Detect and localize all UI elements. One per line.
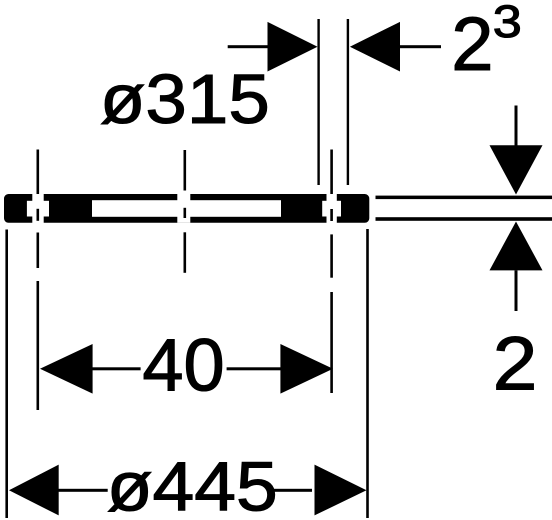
dia445 dimension label [107,448,278,520]
2mm gap dimension superscript 3 [493,0,522,47]
dia445 right extension line [366,229,369,518]
40mm dimension right arrow [280,344,333,394]
dia315 right extension line [347,19,349,185]
svg-text:40: 40 [142,324,224,407]
dia445 dimension right arrow [315,465,367,516]
right notch centerline [330,150,333,394]
left notch centerline [37,150,40,411]
svg-text:3: 3 [493,0,522,47]
2mm gap dimension leader left [228,45,269,48]
dia445 dimension leader left [58,489,108,492]
svg-text:2: 2 [493,321,538,406]
dia445 left extension line [5,230,8,519]
dia445 dimension left arrow [9,465,59,516]
svg-text:ø315: ø315 [100,61,270,138]
svg-text:ø445: ø445 [107,448,278,520]
dia445 dimension leader right [272,489,312,492]
sheet top line [376,196,552,200]
thickness dimension upper leader [515,106,518,146]
thickness dimension lower leader [515,270,518,311]
middle centerline [184,150,187,273]
thickness dimension down arrow [490,145,543,194]
2mm gap dimension leader right [399,45,441,48]
thickness dimension up arrow [490,222,543,271]
40mm dimension leader right [227,367,282,370]
dia315 left extension line [317,19,319,185]
40mm dimension leader left [92,367,141,370]
2mm gap dimension left-pointing arrow [350,22,400,72]
dia315 label [100,61,270,138]
gasket cross-section body [4,193,369,224]
40mm dimension left arrow [40,344,93,394]
2mm gap dimension right-pointing arrow [268,22,318,72]
svg-text:2: 2 [451,2,493,87]
sheet bottom line [376,217,552,221]
thickness dimension label 2 [493,321,538,406]
